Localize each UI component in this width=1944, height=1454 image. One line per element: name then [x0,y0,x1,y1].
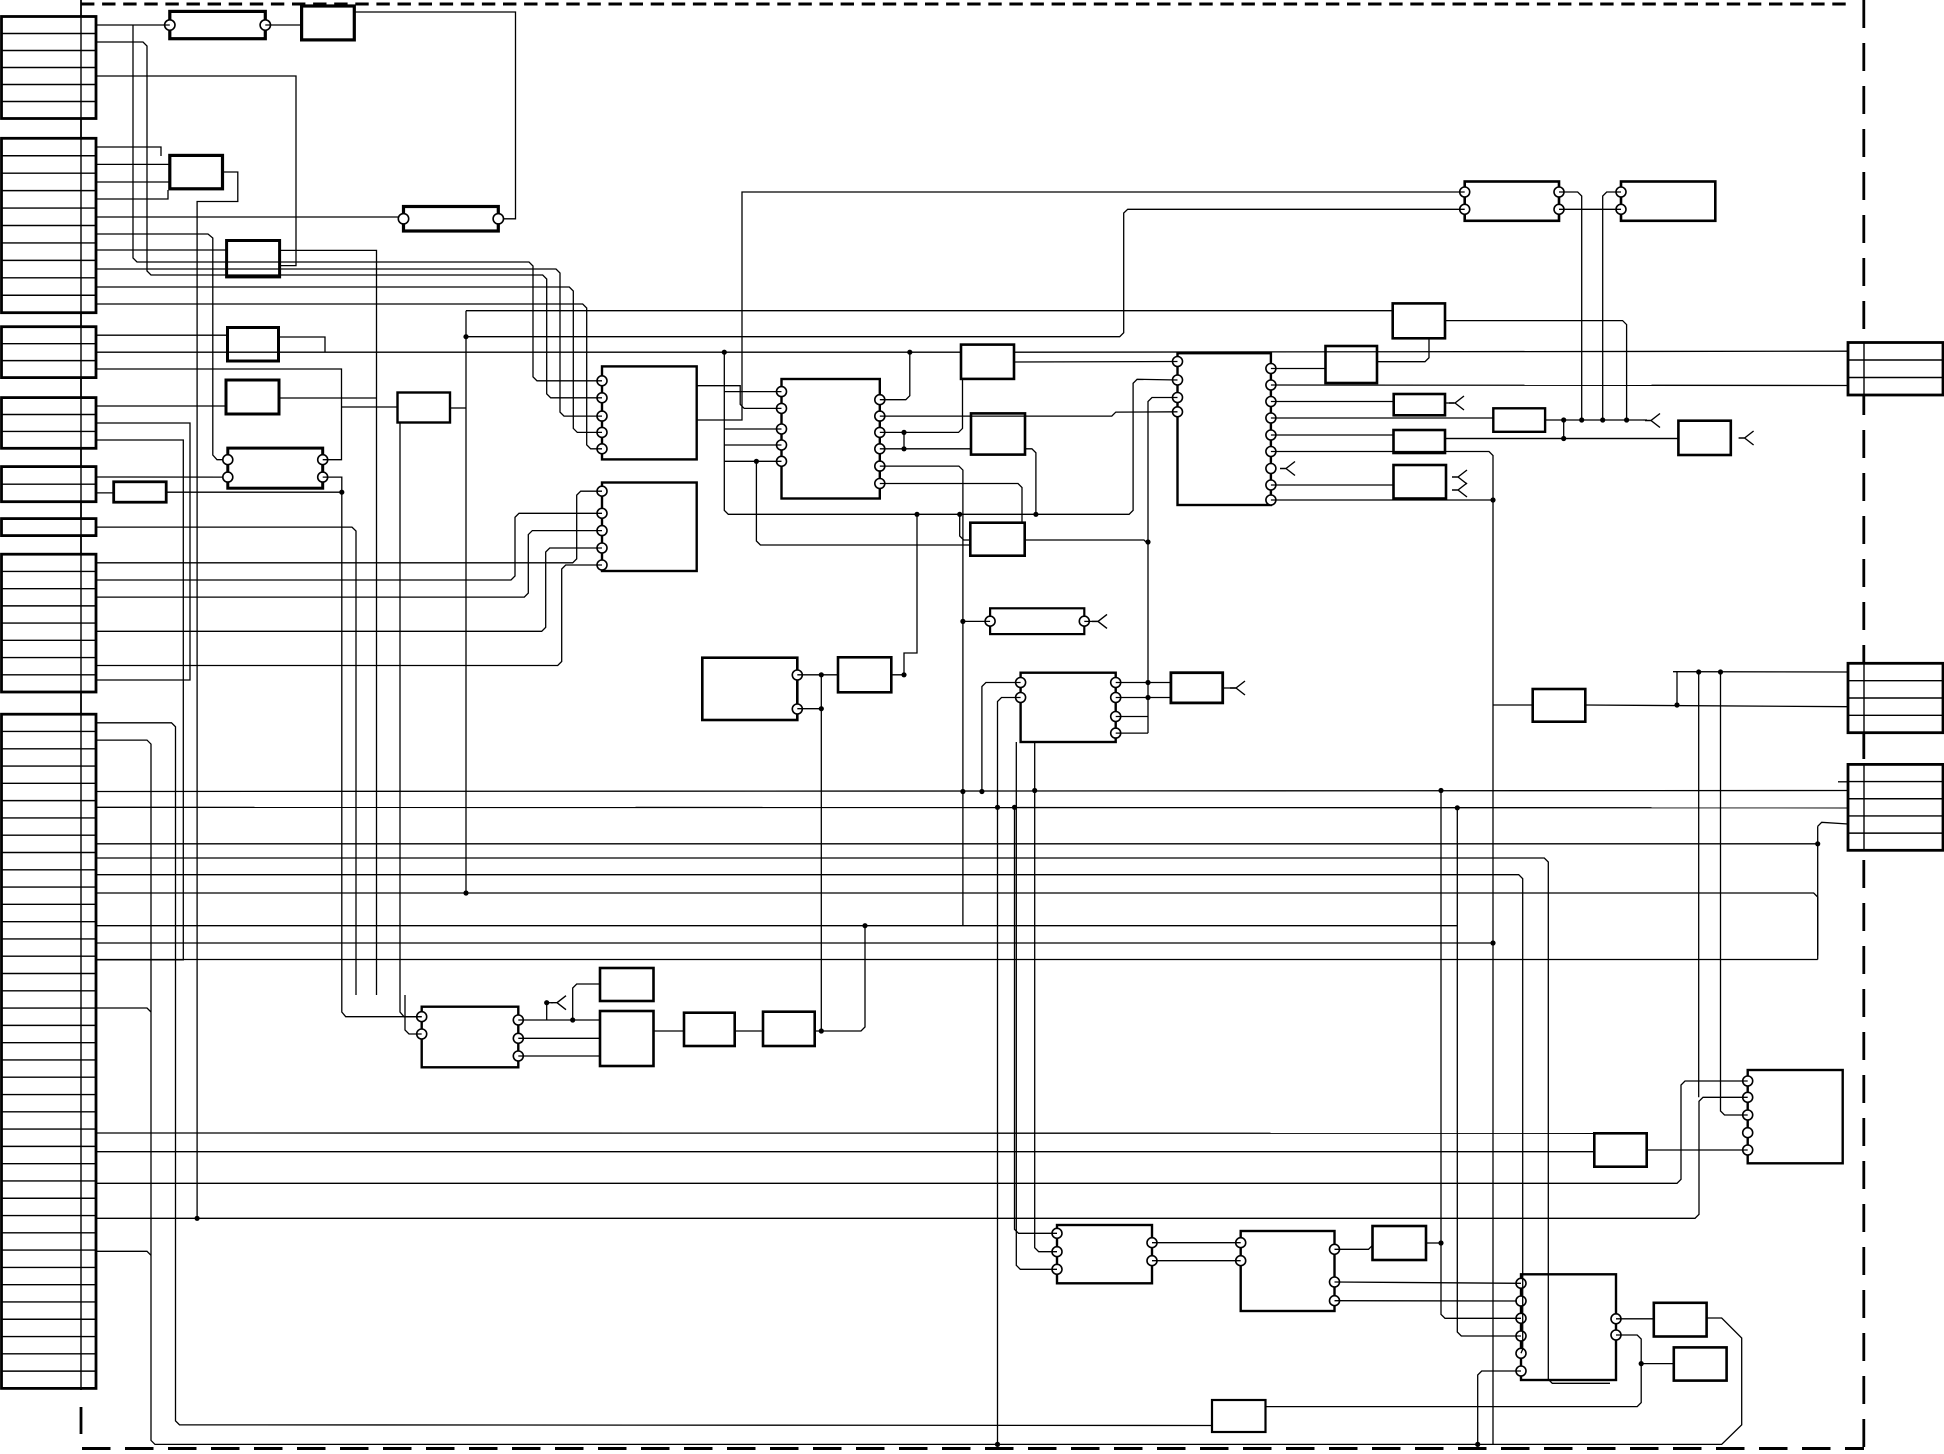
box U38c [970,523,1024,556]
wire x151 [96,740,998,1444]
border top (dashed) [81,3,1846,6]
wire U10l1 [724,391,781,393]
wire U39l [1493,704,1533,706]
junction dot 11 [339,490,344,495]
wire U6-K3r2 [166,491,342,493]
wire D2-loop [96,423,190,680]
box U4 [228,328,279,362]
box U12 [838,657,891,692]
border left dash low [80,1407,83,1434]
wire x756-dn [756,461,970,545]
wire B9-U8 [96,287,602,432]
junction dot 5 [901,446,906,451]
wire y672 [1673,671,1848,673]
wire x1014 [1015,807,1058,1233]
wire E2-U6 [96,492,114,494]
wire H-y959 [96,959,1818,961]
box U38b [971,413,1025,454]
junction dot 7 [1579,417,1584,422]
wire U16r2-RC1 [1271,384,1848,387]
wire K5l [963,620,990,622]
wire G1-U9 [96,491,602,563]
wire U16r4-U18 [1271,417,1493,419]
wire U10r5-dn [880,466,963,926]
wire U22l2-dn [998,698,1021,1445]
wire B6-K3l1 [96,234,223,460]
box U30 [1594,1133,1646,1166]
junction dot 35 [819,706,824,711]
wire A2-dn [96,42,602,398]
wire U10l2 [697,386,782,409]
box U28 [763,1012,815,1046]
wire U30r-U29 [1647,1149,1748,1151]
box U39 [1533,689,1586,722]
junction dot 28 [1718,669,1723,674]
box U21 [1394,465,1447,499]
junction dot 1 [722,350,727,355]
junction dot 4 [901,430,906,435]
wire G5-U9 [96,548,602,631]
IC U16 [1178,353,1271,505]
junction dot 19 [1012,805,1017,810]
wire U32r2-U34 [1335,1282,1522,1283]
wire y420fork [1643,419,1647,421]
wire U31r2-U32 [1152,1260,1241,1262]
border right (dashed) [1862,0,1865,1447]
junction dot 17 [979,789,984,794]
wire U7out [450,407,466,409]
wire U2out-down [197,172,238,1218]
wire U38b-out [1025,449,1036,515]
connector J11 (right, 5 rows) [1848,764,1943,850]
wire U20-in [1445,438,1678,440]
junction dot 3 [754,459,759,464]
wire U17fork [1445,402,1454,404]
box U26 [600,1011,654,1066]
connector J4 (left, 3 rows) [2,398,97,449]
junction dot 20 [1438,788,1443,793]
junction dot 31 [544,1000,549,1005]
wire B3-U2 [96,181,170,183]
wire B7-U3 [96,249,227,251]
IC U34 [1521,1274,1616,1380]
wire U35r-loop [998,1318,1742,1444]
wire U26-U27 [654,1030,685,1032]
box U15 [1326,346,1378,383]
wire x466 [465,311,467,891]
connector J9 (right, 3 rows) [1848,343,1943,396]
wire A1-K1 [96,24,170,26]
fork 9 [551,996,566,1010]
junction dot 23 [1145,539,1150,544]
wire U11r2 [797,708,821,710]
wire E1-K3l2 [96,476,223,478]
wire U10r3 [880,431,904,433]
connector J2 (left, 10 rows) [2,138,97,312]
junction dot 6 [1561,417,1566,422]
fork 1 [1449,396,1464,410]
wire U38a-out [1014,361,1178,364]
IC U29 [1748,1070,1843,1163]
junction dot 44 [995,1442,1000,1447]
box U36 [1674,1347,1727,1380]
junction dot 12 [463,334,468,339]
box U7 [398,393,451,423]
junction dot 9 [1624,417,1629,422]
wire U16r8-U21 [1271,484,1394,486]
wire G7-U9 [96,565,602,666]
wire U3out1-down [280,250,377,995]
wire y438 [1445,438,1678,440]
wire U22r4 [1116,732,1148,734]
wire x1817-RC3 [1818,822,1848,826]
IC U32 [1241,1231,1335,1311]
wire B8-U8 [96,269,602,416]
wire y420 [1545,419,1643,421]
wire x405-pin2 [405,995,422,1034]
junction dot 14 [957,512,962,517]
fork 2 [1645,414,1660,428]
wire U10r3b [904,379,963,433]
junction dot 29 [1490,940,1495,945]
wire G2-U9 [96,513,602,580]
fork 4 [1452,470,1467,484]
box U8 [602,366,697,459]
junction dot 45 [195,1216,200,1221]
junction dot 27 [1696,669,1701,674]
wire U31r1-U32 [1152,1242,1241,1244]
wire C1-U4 [96,334,228,336]
wire U16r5-U19 [1271,434,1394,436]
wire U10r2-U16 [880,412,1178,416]
border left (solid) [80,0,82,1390]
junction dot 25 [1145,695,1150,700]
fork 6 [1280,462,1295,476]
junction dot 36 [901,672,906,677]
box U2 [170,155,223,188]
wire H-y842 [96,843,1818,845]
wire U16r9-x [1271,499,1493,501]
wire U15out [1377,338,1429,361]
wire U34r1-U35 [1616,1318,1654,1320]
wire U13l1-dn [1603,192,1621,420]
wire H-y943 [96,942,1493,944]
box U19 [1394,430,1446,453]
wire U10l5 [724,460,781,462]
wire U4out [279,337,326,352]
wire x821 [820,675,822,1031]
wire D3-x183 [96,440,183,960]
wire B4-U2 [96,190,168,199]
box U38a [961,345,1014,379]
wire C2-RC1 [96,351,961,353]
relay K5 [990,608,1084,634]
junction dot 18 [995,805,1000,810]
wire x1441 [1441,791,1521,1319]
junction dot 41 [1639,1361,1644,1366]
box U37 [1212,1400,1266,1432]
box U13 [1621,182,1715,221]
wire U34r2-U36 [1266,1335,1642,1407]
junction dot 30 [1032,788,1037,793]
wire x1148 [1148,398,1178,734]
junction dot 40 [1033,512,1038,517]
wire K5fork [1084,620,1098,622]
wire H-y926 [96,925,1457,927]
wire U10l3 [724,428,781,430]
relay K4 [1465,182,1559,221]
fork 8 [1230,681,1245,695]
wire U24r1-U26 [518,1019,600,1021]
box U11 [702,658,797,720]
wire L1 [466,310,1393,312]
wire U39r [1585,705,1848,707]
wire y420-bridge [1563,420,1565,439]
junction dot 33 [819,1028,824,1033]
wire H1-U37 [96,723,1212,1426]
wire U10r4 [880,448,971,450]
IC U10 [782,379,880,499]
wire L3b [1014,351,1848,352]
junction dot 10 [1561,436,1566,441]
junction dot 8 [1600,417,1605,422]
wire U24r3-U26 [518,1055,600,1057]
wire B10-U8 [96,304,602,449]
wire x1677 [1676,672,1678,705]
box U20 [1678,421,1730,455]
wire H-y1218 [96,1097,1748,1218]
wire K4r2-U13 [1559,208,1621,210]
wire A4-U3out2 [96,76,296,266]
wire forkstub [547,1002,553,1004]
wire U16r6-dn [1271,452,1493,1445]
wire y192 [697,192,1465,420]
wire x1720 [1721,672,1748,1115]
wire B1-U2 [96,147,161,156]
wire U38c-out [1025,540,1148,544]
relay K3 [228,448,323,488]
IC U24 [422,1007,519,1068]
box U14 [1393,303,1445,338]
wire U14out [1445,321,1627,420]
wire U5out [279,397,377,399]
relay K2 [404,207,499,232]
wire U28r-up [815,926,865,1031]
box U25 [600,968,654,1001]
wire U22r2-U23 [1116,697,1171,699]
junction dot 43 [1815,841,1820,846]
box U5 [226,380,279,414]
wire H-y1251 [96,1251,151,1255]
wire B2-U2 [96,163,170,165]
box U9 [602,483,697,572]
box U33 [1373,1226,1427,1260]
wire H-y1008 [96,1008,151,1012]
wire U24r2-U26 [518,1037,600,1039]
wire U33r [1426,1242,1441,1244]
wire U22r1-U23 [1116,682,1171,684]
wire RC3r2-in [1838,781,1848,783]
wire A1-dn [133,25,602,381]
wire U22r3 [1116,716,1148,718]
wire D1-U5 [96,405,226,407]
wire C3-K3r1 [96,369,342,460]
connector J6 (left, 1 row) [2,519,97,536]
wire U1-K2r [354,12,515,219]
wire x1817v [1817,826,1819,959]
wire U16r3-U17 [1271,401,1394,403]
box U6 [114,482,167,502]
wire U27-U28 [735,1030,763,1032]
wire x1698-dn [1698,672,1700,1097]
box U17 [1394,394,1445,415]
wire U11r1-U12 [797,674,838,676]
box U3 [227,241,280,277]
box U1 [302,6,355,40]
junction dot 32 [570,1017,575,1022]
connector J1 (left, 6 rows) [2,17,97,119]
junction dot 21 [1455,805,1460,810]
junction dot 26 [1674,702,1679,707]
wire U34l6 [1478,1371,1521,1444]
box U35 [1654,1303,1707,1337]
wire K4r1-dn [1559,192,1582,420]
wire H-y874 [96,875,1523,1354]
wire U38c-in2 [960,514,971,540]
wire C3-U7 [342,406,398,408]
wire U10l4 [724,444,781,446]
fork 3 [1739,431,1754,445]
wire B5-K2l [96,216,399,218]
fork 5 [1452,483,1467,497]
wire x724 [724,352,1177,514]
junction dot 22 [862,923,867,928]
wire U12out [892,514,918,675]
wire fork-dn [546,1003,548,1020]
wire F1-x356 [96,527,356,995]
wire U36-in [1641,1363,1674,1365]
wire H-y791 [96,791,1848,792]
junction dot 24 [1145,680,1150,685]
wire H-y1151 [96,1151,1594,1153]
wire U10r6-dn [880,484,1022,523]
junction dot 2 [907,350,912,355]
IC U22 [1021,673,1116,742]
wire H-y1133 [96,1132,1594,1134]
connector J5 (left, 2 rows) [2,467,97,502]
connector J10 (right, 4 rows) [1848,663,1943,732]
wire G3-U9 [96,531,602,598]
wire U22bot2 [1035,742,1057,1252]
relay K1 [170,11,265,38]
connector J8 (left, 39 rows) [2,714,97,1388]
wire U23fork [1223,687,1236,689]
junction dot 34 [819,672,824,677]
junction dot 42 [1475,1442,1480,1447]
wire U16r1-U15 [1271,368,1326,370]
wire H-y1183 [96,1081,1748,1183]
wire U32r1-U33 [1335,1245,1373,1249]
fork 7 [1092,614,1107,628]
box U23 [1171,673,1223,703]
junction dot 15 [960,619,965,624]
junction dot 13 [463,890,468,895]
junction dot 38 [1438,1240,1443,1245]
wire x1457 [1457,808,1521,1336]
wire H-y807 [96,806,1848,809]
wire bridge904 [903,432,905,448]
wire U22l1-dn [982,683,1021,792]
box U27 [684,1013,735,1046]
wire K1-U1 [265,24,301,26]
connector J7 (left, 8 rows) [2,554,97,692]
wire L2b [466,209,1465,336]
wire U22bot1 [1016,742,1057,1269]
connector J3 (left, 3 rows) [2,327,97,378]
wire U10r1-up [880,352,910,400]
IC U31 [1057,1225,1152,1283]
junction dot 37 [914,512,919,517]
wire K3r2-x341 [323,477,422,1017]
wire U7bot-down [400,423,422,1017]
box U18 [1493,408,1545,432]
junction dot 39 [1490,497,1495,502]
wire x572-U25 [573,984,600,1020]
junction dot 16 [960,789,965,794]
wire H-y858 [96,858,1610,1383]
border bottom (dashed) [82,1447,1864,1450]
wire H-y893 [96,893,1818,956]
wire U32r3-U34 [1335,1300,1518,1302]
